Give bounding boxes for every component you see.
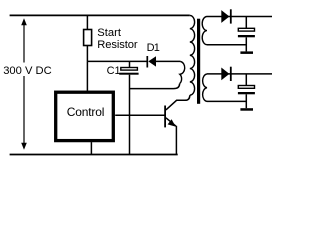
capacitor C1 bottom lead down to bottom rail (129, 75, 131, 155)
label Start Resistor (97, 27, 138, 51)
wire secondary 1 top (winding to output) (207, 16, 272, 18)
node 300V measurement arrow line (23, 21, 25, 147)
wire secondary 1 bottom (207, 44, 246, 46)
transistor Q1 base bar (164, 106, 166, 128)
transistor Q1 collector path to primary winding bottom (166, 95, 190, 110)
transformer T1 secondary winding 1 (2 arcs) (202, 17, 207, 45)
wire top rail (+300V) (10, 14, 190, 16)
ground bar secondary 2 (240, 108, 253, 111)
wire secondary 2 top (winding to output) (207, 73, 272, 75)
wire aux winding bottom to C1 lead (130, 84, 180, 89)
svg-text:300 V DC: 300 V DC (3, 65, 52, 77)
resistor R start: body (84, 30, 92, 46)
capacitor C3 bottom lead (245, 94, 247, 108)
ground bar secondary 1 (240, 51, 253, 54)
resistor R start: top lead (86, 15, 88, 29)
transformer T1 primary winding (6 arcs) (190, 15, 195, 95)
svg-text:Control: Control (67, 105, 105, 119)
resistor R start: bottom lead (86, 46, 88, 62)
diode D3 triangle (pointing right) (221, 68, 229, 81)
capacitor C1 bottom plate (solid) (119, 73, 138, 75)
capacitor C3 bottom plate (solid) (238, 92, 255, 94)
diode D3 cathode bar (230, 67, 232, 81)
capacitor C1 top plate (hollow) (121, 68, 138, 71)
wire control bottom lead (90, 142, 92, 154)
transformer T1 secondary winding 2 (2 arcs) (203, 74, 207, 102)
svg-text:Resistor: Resistor (97, 39, 138, 51)
capacitor C2 bottom lead (245, 37, 247, 51)
transistor Q1 emitter diagonal (166, 118, 176, 126)
diode D1 cathode bar (146, 56, 148, 68)
diode D1 triangle (pointing left) (148, 56, 156, 66)
diode D2 cathode bar (230, 9, 232, 23)
label 300 V DC (2, 63, 52, 78)
capacitor C3 top lead (245, 74, 247, 86)
capacitor C2 top lead (245, 17, 247, 29)
wire D1 anode to aux winding (156, 60, 181, 62)
capacitor C1 top lead (129, 61, 131, 67)
node 300V arrowhead down (21, 143, 27, 150)
transformer T1 aux (feedback) winding (2 arcs) (180, 61, 185, 83)
svg-text:C1: C1 (107, 65, 121, 77)
node 300V arrowhead up (21, 18, 27, 25)
wire bottom rail (return) (10, 154, 178, 156)
svg-text:Start: Start (97, 27, 122, 39)
control block box (56, 92, 114, 140)
capacitor C2 bottom plate (solid) (238, 35, 255, 37)
wire base drive (control to Q1 base) (115, 114, 165, 116)
capacitor C2 top plate (hollow) (238, 28, 254, 31)
transformer T1 core bar (197, 19, 200, 104)
svg-text:D1: D1 (147, 42, 160, 54)
wire secondary 2 bottom (207, 100, 246, 102)
wire control top lead (86, 61, 88, 90)
wire node A horizontal (resistor bottom to D1 cathode) (87, 60, 147, 62)
wire emitter down to bottom rail (175, 126, 177, 155)
diode D2 triangle (pointing right) (221, 10, 229, 23)
transistor Q1 emitter arrowhead (168, 119, 176, 126)
capacitor C3 top plate (hollow) (238, 86, 254, 89)
